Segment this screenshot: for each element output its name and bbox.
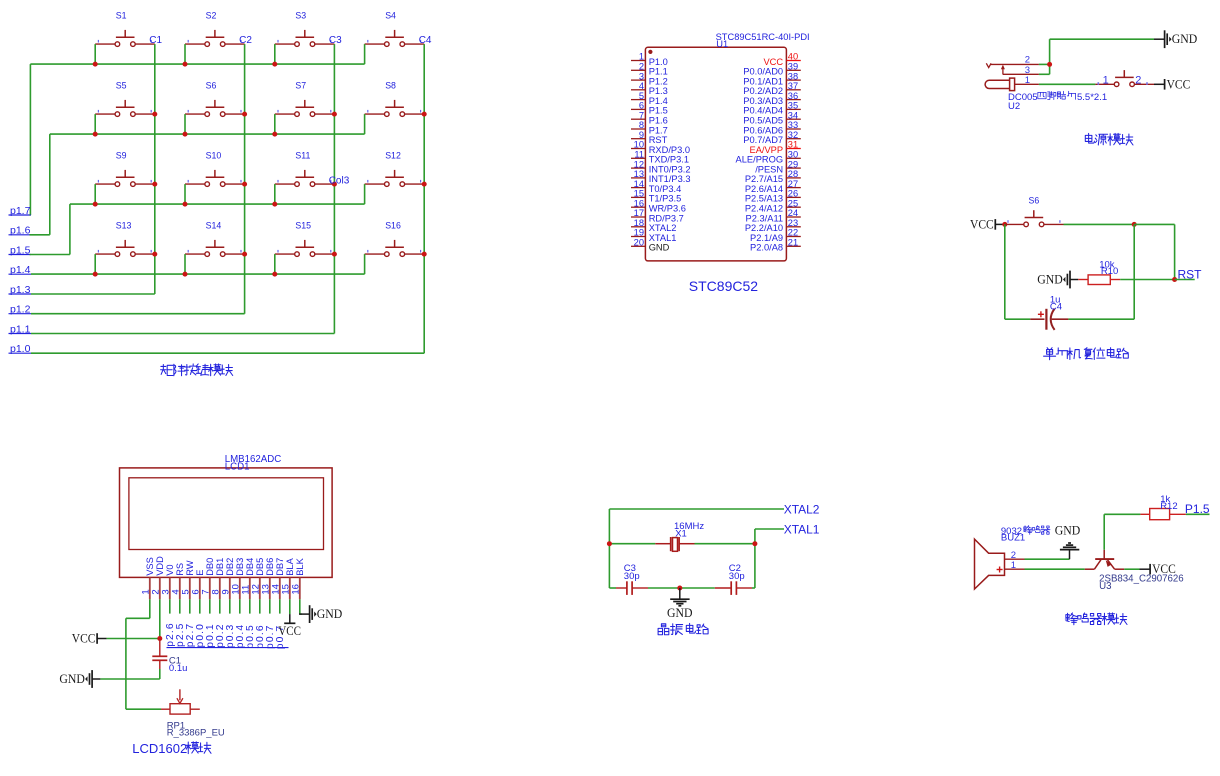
svg-text:S1: S1 bbox=[116, 10, 127, 20]
wiper arrow bbox=[179, 689, 181, 700]
svg-text:GND: GND bbox=[649, 243, 670, 253]
svg-text:S11: S11 bbox=[295, 150, 310, 160]
svg-text:C1: C1 bbox=[149, 35, 162, 46]
junction bbox=[157, 636, 162, 641]
wire bbox=[364, 184, 366, 204]
wire bbox=[1174, 224, 1176, 279]
svg-text:36: 36 bbox=[788, 91, 798, 101]
U1 right pin 21 P2.0/A8 bbox=[750, 238, 801, 253]
svg-text:P0.5/AD5: P0.5/AD5 bbox=[743, 116, 783, 126]
LCD pin 9 DB2 bbox=[220, 558, 235, 600]
svg-text:RW: RW bbox=[185, 560, 195, 576]
wire bbox=[249, 599, 251, 613]
junction bbox=[332, 252, 337, 257]
junction bbox=[272, 132, 277, 137]
switch S15 bbox=[275, 220, 335, 256]
wire bbox=[274, 254, 276, 274]
junction bbox=[422, 112, 427, 117]
U1 left pin 6 P1.5 bbox=[631, 101, 668, 116]
wire bbox=[107, 638, 160, 640]
BUZ1 pin 1 bbox=[1005, 568, 1025, 570]
wire bbox=[274, 184, 276, 204]
wire column C3 bbox=[333, 44, 335, 333]
junction bbox=[183, 202, 188, 207]
wire BLK bbox=[299, 599, 301, 614]
svg-text:P1.2: P1.2 bbox=[649, 76, 668, 86]
wire bbox=[239, 599, 241, 613]
svg-text:GND: GND bbox=[317, 606, 343, 621]
wire bbox=[1039, 83, 1096, 85]
U1 right pin 39 P0.0/AD0 bbox=[743, 62, 800, 77]
wire bbox=[1039, 73, 1050, 75]
junction bbox=[152, 252, 157, 257]
wire bbox=[31, 352, 424, 354]
wire bbox=[279, 599, 281, 613]
svg-text:R12: R12 bbox=[1160, 501, 1177, 512]
svg-text:S5: S5 bbox=[116, 80, 127, 90]
svg-text:S10: S10 bbox=[206, 150, 222, 160]
U1 left pin 11 TXD/P3.1 bbox=[631, 150, 689, 165]
wire bbox=[94, 184, 96, 204]
wire bbox=[609, 587, 616, 589]
wire bbox=[30, 254, 70, 256]
svg-text:U2: U2 bbox=[1008, 101, 1020, 112]
wire bbox=[695, 543, 755, 545]
emitter arrow bbox=[1106, 560, 1112, 567]
U1 right pin 22 P2.1/A9 bbox=[750, 228, 801, 243]
svg-text:1: 1 bbox=[1103, 75, 1109, 87]
switch S7 bbox=[275, 80, 335, 116]
potentiometer RP1 bbox=[161, 689, 225, 738]
U1 right pin 35 P0.4/AD4 bbox=[743, 101, 800, 116]
svg-text:V0: V0 bbox=[165, 564, 175, 575]
svg-text:P1.3: P1.3 bbox=[649, 86, 668, 96]
svg-text:S16: S16 bbox=[385, 220, 401, 230]
svg-text:DB7: DB7 bbox=[275, 558, 285, 576]
switch S16 bbox=[365, 220, 425, 256]
svg-text:11: 11 bbox=[634, 150, 644, 160]
wire bbox=[609, 508, 784, 510]
junction bbox=[1132, 222, 1137, 227]
svg-text:RXD/P3.0: RXD/P3.0 bbox=[649, 145, 690, 155]
svg-text:P2.7/A15: P2.7/A15 bbox=[745, 174, 783, 184]
switch S2 bbox=[185, 10, 245, 46]
ground symbol bbox=[679, 588, 681, 599]
U1 left pin 2 P1.1 bbox=[631, 62, 668, 77]
ground symbol bbox=[1069, 550, 1071, 560]
svg-text:S6: S6 bbox=[206, 80, 217, 90]
svg-text:19: 19 bbox=[634, 228, 644, 238]
resistor R10 bbox=[1078, 259, 1120, 284]
LCD pin 1 VSS bbox=[140, 557, 155, 599]
junction bbox=[93, 62, 98, 67]
svg-text:VCC: VCC bbox=[1167, 76, 1191, 91]
svg-text:S15: S15 bbox=[295, 220, 311, 230]
junction bbox=[1047, 62, 1052, 67]
wire bbox=[752, 587, 755, 589]
svg-text:P1.4: P1.4 bbox=[649, 96, 668, 106]
U1 right pin 36 P0.3/AD3 bbox=[743, 91, 800, 106]
svg-text:P2.3/A11: P2.3/A11 bbox=[746, 213, 784, 223]
title power module bbox=[1085, 133, 1133, 145]
wire bbox=[300, 613, 302, 615]
junction bbox=[152, 182, 157, 187]
svg-text:RST: RST bbox=[649, 135, 668, 145]
U1 right pin 33 P0.6/AD6 bbox=[743, 120, 800, 135]
svg-text:35: 35 bbox=[788, 101, 798, 111]
LCD pin 16 BLK bbox=[290, 557, 305, 599]
svg-text:2: 2 bbox=[639, 62, 644, 72]
svg-text:GND: GND bbox=[1172, 31, 1198, 46]
switch S4 bbox=[365, 10, 425, 46]
wire bbox=[184, 44, 186, 64]
svg-text:DB1: DB1 bbox=[215, 558, 225, 576]
junction bbox=[677, 586, 682, 591]
U1 left pin 17 RD/P3.7 bbox=[631, 208, 684, 223]
svg-text:DB0: DB0 bbox=[205, 558, 215, 576]
junction bbox=[93, 272, 98, 277]
svg-text:30p: 30p bbox=[729, 571, 745, 582]
svg-text:VCC: VCC bbox=[72, 631, 96, 646]
wire column C1 bbox=[154, 44, 156, 294]
svg-text:DB4: DB4 bbox=[245, 558, 255, 576]
svg-text:R10: R10 bbox=[1101, 266, 1118, 277]
svg-text:BLK: BLK bbox=[295, 557, 305, 575]
svg-text:5: 5 bbox=[639, 91, 644, 101]
U1 right pin 30 ALE/PROG bbox=[736, 150, 801, 165]
svg-text:C4: C4 bbox=[419, 35, 432, 46]
junction bbox=[183, 272, 188, 277]
wire bbox=[29, 64, 31, 215]
wire bbox=[229, 599, 231, 613]
wire bbox=[754, 529, 756, 588]
svg-text:DB2: DB2 bbox=[225, 558, 235, 576]
wire column C4 bbox=[423, 44, 425, 353]
svg-text:S7: S7 bbox=[295, 80, 306, 90]
svg-text:S12: S12 bbox=[385, 150, 401, 160]
wire bbox=[608, 509, 610, 588]
wire bbox=[31, 293, 155, 295]
U1 left pin 4 P1.3 bbox=[631, 81, 668, 96]
wire bbox=[1039, 63, 1050, 65]
svg-text:C4: C4 bbox=[1050, 301, 1062, 312]
svg-text:P2.4/A12: P2.4/A12 bbox=[745, 204, 783, 214]
wire bbox=[209, 599, 211, 613]
svg-text:30: 30 bbox=[788, 150, 798, 160]
svg-text:INT1/P3.3: INT1/P3.3 bbox=[649, 174, 691, 184]
title reset circuit bbox=[1044, 348, 1129, 360]
capacitor C4 bbox=[1030, 295, 1068, 330]
junction bbox=[332, 182, 337, 187]
LCD pin 15 BLA bbox=[280, 557, 295, 599]
wire bbox=[1134, 223, 1174, 225]
power flag VCC (down) bbox=[278, 614, 301, 638]
svg-text:DB6: DB6 bbox=[265, 558, 275, 576]
svg-text:TXD/P3.1: TXD/P3.1 bbox=[649, 155, 689, 165]
U1 left pin 16 WR/P3.6 bbox=[631, 198, 686, 213]
U1 left pin 12 INT0/P3.2 bbox=[631, 159, 691, 174]
wire row line bbox=[31, 273, 365, 275]
U1 right pin 26 P2.5/A13 bbox=[745, 189, 801, 204]
wire bbox=[755, 528, 784, 530]
wire bbox=[219, 599, 221, 613]
svg-text:GND: GND bbox=[59, 671, 85, 686]
wire column C2 bbox=[244, 44, 246, 314]
switch S5 bbox=[95, 80, 155, 116]
svg-text:XTAL1: XTAL1 bbox=[649, 233, 677, 243]
U1 left pin 8 P1.7 bbox=[631, 120, 668, 135]
svg-text:10: 10 bbox=[634, 140, 644, 150]
svg-text:24: 24 bbox=[788, 208, 798, 218]
svg-text:2: 2 bbox=[1135, 75, 1141, 87]
svg-text:LCD1602: LCD1602 bbox=[132, 741, 187, 756]
U1 right pin 37 P0.2/AD2 bbox=[743, 81, 800, 96]
svg-text:/PESN: /PESN bbox=[755, 164, 783, 174]
LCD pin 6 E bbox=[190, 570, 205, 600]
switch S10 bbox=[185, 150, 245, 186]
wire bbox=[1004, 224, 1006, 319]
BUZ1 pin 2 bbox=[1005, 558, 1025, 560]
svg-text:INT0/P3.2: INT0/P3.2 bbox=[649, 164, 691, 174]
svg-text:STC89C51RC-40I-PDI: STC89C51RC-40I-PDI bbox=[716, 32, 810, 42]
svg-text:BLA: BLA bbox=[285, 557, 295, 575]
svg-text:29: 29 bbox=[788, 159, 798, 169]
svg-text:6: 6 bbox=[639, 101, 644, 111]
svg-text:P2.0/A8: P2.0/A8 bbox=[750, 243, 783, 253]
wire bbox=[189, 599, 191, 613]
junction bbox=[422, 252, 427, 257]
resistor R12 bbox=[1140, 494, 1186, 520]
svg-text:21: 21 bbox=[788, 238, 798, 248]
LCD pin 13 DB6 bbox=[260, 558, 275, 600]
svg-text:VCC: VCC bbox=[278, 623, 301, 638]
svg-text:27: 27 bbox=[788, 179, 798, 189]
LCD pin 12 DB5 bbox=[250, 558, 265, 600]
svg-text:VCC: VCC bbox=[970, 216, 994, 231]
crystal X1 16MHz bbox=[655, 521, 704, 551]
U1 left pin 7 P1.6 bbox=[631, 110, 668, 125]
LCD pin 7 DB0 bbox=[200, 558, 215, 600]
svg-text:33: 33 bbox=[788, 120, 798, 130]
wire bbox=[31, 313, 245, 315]
svg-text:P2.2/A10: P2.2/A10 bbox=[745, 223, 783, 233]
svg-text:S14: S14 bbox=[206, 220, 222, 230]
svg-text:R_3386P_EU: R_3386P_EU bbox=[167, 728, 225, 739]
svg-text:P0.1/AD1: P0.1/AD1 bbox=[743, 76, 783, 86]
U1 right pin 32 P0.7/AD7 bbox=[743, 130, 800, 145]
wire bbox=[184, 254, 186, 274]
wire bbox=[30, 234, 50, 236]
junction bbox=[152, 112, 157, 117]
junction bbox=[422, 182, 427, 187]
svg-text:13: 13 bbox=[634, 169, 644, 179]
U1 left pin 15 T1/P3.5 bbox=[631, 189, 681, 204]
wire bbox=[31, 333, 334, 335]
LCD pin 4 RS bbox=[170, 563, 185, 599]
svg-text:30p: 30p bbox=[624, 571, 640, 582]
wire bbox=[1068, 318, 1134, 320]
U2 pin 2 bbox=[991, 63, 1039, 65]
svg-text:STC89C52: STC89C52 bbox=[689, 278, 758, 294]
svg-text:S2: S2 bbox=[206, 10, 217, 20]
wire bbox=[274, 114, 276, 134]
svg-text:RS: RS bbox=[175, 563, 185, 576]
svg-text:39: 39 bbox=[788, 62, 798, 72]
svg-text:0.1u: 0.1u bbox=[169, 663, 188, 674]
svg-text:17: 17 bbox=[634, 208, 644, 218]
IC U1 STC89C52 bbox=[631, 32, 810, 294]
svg-text:GND: GND bbox=[667, 605, 693, 620]
wire bbox=[1133, 224, 1135, 319]
svg-text:5.5*2.1: 5.5*2.1 bbox=[1077, 92, 1107, 103]
junction bbox=[183, 62, 188, 67]
wire bbox=[126, 617, 150, 619]
wire bbox=[29, 214, 32, 216]
svg-text:S8: S8 bbox=[385, 80, 396, 90]
svg-text:38: 38 bbox=[788, 71, 798, 81]
wire bbox=[1120, 279, 1174, 281]
junction bbox=[242, 182, 247, 187]
U1 right pin 23 P2.2/A10 bbox=[745, 218, 801, 233]
switch S14 bbox=[185, 220, 245, 256]
svg-text:3: 3 bbox=[639, 71, 644, 81]
svg-text:GND: GND bbox=[1055, 523, 1081, 538]
svg-text:8: 8 bbox=[639, 120, 644, 130]
svg-text:15: 15 bbox=[634, 189, 644, 199]
wire bbox=[169, 599, 171, 613]
wire bbox=[1064, 223, 1135, 225]
svg-text:4: 4 bbox=[639, 81, 644, 91]
U1 right pin 38 P0.1/AD1 bbox=[743, 71, 800, 86]
U1 left pin 13 INT1/P3.3 bbox=[631, 169, 691, 184]
wire bbox=[1186, 513, 1210, 515]
svg-text:S6: S6 bbox=[1029, 195, 1040, 205]
capacitor C3 bbox=[616, 563, 648, 595]
pin1 marker dot bbox=[648, 50, 652, 54]
svg-text:C2: C2 bbox=[239, 35, 252, 46]
LCD module bbox=[59, 454, 342, 756]
svg-text:XTAL2: XTAL2 bbox=[649, 223, 677, 233]
wire bbox=[1175, 279, 1195, 281]
LCD1 LMB162ADC bbox=[120, 454, 333, 578]
svg-text:X1: X1 bbox=[675, 529, 687, 540]
transistor U3 2SB834 PNP bbox=[1085, 550, 1184, 592]
wire bbox=[94, 44, 96, 64]
svg-text:P1.6: P1.6 bbox=[649, 116, 668, 126]
junction bbox=[607, 541, 612, 546]
title crystal circuit bbox=[658, 623, 708, 634]
power flag VCC bbox=[995, 223, 1005, 225]
svg-text:BUZ1: BUZ1 bbox=[1001, 533, 1025, 544]
svg-text:S13: S13 bbox=[116, 220, 132, 230]
junction bbox=[242, 252, 247, 257]
power flag VCC bbox=[97, 638, 107, 640]
wire bbox=[259, 599, 261, 613]
wire bbox=[364, 254, 366, 274]
svg-text:C3: C3 bbox=[329, 35, 342, 46]
U1 right pin 24 P2.3/A11 bbox=[746, 208, 801, 223]
svg-text:1: 1 bbox=[1025, 75, 1030, 86]
svg-text:S9: S9 bbox=[116, 150, 127, 160]
svg-text:32: 32 bbox=[788, 130, 798, 140]
wire bbox=[126, 708, 161, 710]
svg-text:P0.3/AD3: P0.3/AD3 bbox=[743, 96, 783, 106]
svg-text:T1/P3.5: T1/P3.5 bbox=[649, 194, 682, 204]
power flag GND bbox=[299, 613, 310, 615]
svg-text:VCC: VCC bbox=[763, 57, 783, 67]
svg-text:VSS: VSS bbox=[145, 557, 155, 576]
svg-text:P1.1: P1.1 bbox=[649, 67, 668, 77]
svg-text:P2.6/A14: P2.6/A14 bbox=[745, 184, 783, 194]
U1 left pin 1 P1.0 bbox=[631, 52, 668, 67]
buzzer BUZ1 speaker symbol bbox=[975, 526, 1050, 589]
LCD pin 10 DB3 bbox=[230, 558, 245, 600]
net label underline bbox=[167, 647, 289, 649]
wire bbox=[364, 114, 366, 134]
LCD pin 8 DB1 bbox=[210, 558, 225, 600]
svg-text:1: 1 bbox=[639, 52, 644, 62]
junction bbox=[272, 202, 277, 207]
svg-text:GND: GND bbox=[1037, 271, 1063, 286]
wire bbox=[184, 184, 186, 204]
wire bbox=[609, 543, 655, 545]
wire bbox=[125, 618, 127, 709]
switch S13 bbox=[95, 220, 155, 256]
wire bbox=[1025, 568, 1085, 570]
svg-text:12: 12 bbox=[634, 159, 644, 169]
switch S9 bbox=[95, 150, 155, 186]
svg-text:U1: U1 bbox=[716, 39, 728, 49]
U1 left pin 9 RST bbox=[631, 130, 668, 145]
svg-text:VDD: VDD bbox=[155, 556, 165, 576]
junction bbox=[242, 112, 247, 117]
power module bbox=[985, 30, 1197, 145]
wire bbox=[159, 669, 161, 679]
switch S6 bbox=[185, 80, 245, 116]
U1 left pin 14 T0/P3.4 bbox=[631, 179, 681, 194]
power switch bbox=[1095, 70, 1154, 87]
svg-text:T0/P3.4: T0/P3.4 bbox=[649, 184, 682, 194]
svg-text:P0.7/AD7: P0.7/AD7 bbox=[743, 135, 783, 145]
wire bbox=[1005, 318, 1030, 320]
svg-text:XTAL2: XTAL2 bbox=[784, 503, 820, 517]
switch S3 bbox=[275, 10, 335, 46]
svg-text:P1.5: P1.5 bbox=[649, 106, 668, 116]
svg-text:E: E bbox=[195, 570, 205, 576]
U1 left pin 19 XTAL1 bbox=[631, 228, 676, 243]
junction bbox=[183, 132, 188, 137]
svg-text:9: 9 bbox=[639, 130, 644, 140]
svg-text:Col3: Col3 bbox=[329, 175, 350, 186]
svg-text:1: 1 bbox=[1011, 560, 1016, 571]
wire bbox=[94, 114, 96, 134]
U1 right pin 27 P2.6/A14 bbox=[745, 179, 801, 194]
svg-text:31: 31 bbox=[788, 140, 798, 150]
svg-text:16: 16 bbox=[290, 584, 301, 595]
plus sign bbox=[1038, 313, 1044, 315]
svg-text:16: 16 bbox=[634, 198, 644, 208]
svg-text:RD/P3.7: RD/P3.7 bbox=[649, 213, 684, 223]
svg-text:37: 37 bbox=[788, 81, 798, 91]
wire VDD bbox=[159, 599, 161, 638]
power flag VCC bbox=[1140, 568, 1151, 570]
wire bbox=[1050, 38, 1154, 40]
wire bbox=[269, 599, 271, 613]
svg-text:XTAL1: XTAL1 bbox=[784, 523, 820, 537]
U2 pin 3 bbox=[1003, 73, 1039, 75]
U1 right pin 31 EA/VPP bbox=[750, 140, 801, 155]
U1 right pin 29 /PESN bbox=[755, 159, 801, 174]
